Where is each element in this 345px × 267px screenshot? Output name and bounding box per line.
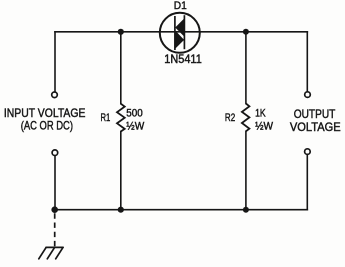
diode D1 upper arrow (points left): [175, 18, 184, 36]
ground (chassis): [39, 247, 63, 258]
svg-text:VOLTAGE: VOLTAGE: [290, 120, 341, 134]
wire top rail: [55, 31, 307, 33]
diode D1 right bar: [183, 15, 185, 49]
wire R1 bottom lead: [120, 132, 122, 210]
svg-text:1K: 1K: [255, 108, 266, 120]
svg-text:R2: R2: [225, 112, 235, 124]
wire left column upper: [54, 32, 56, 92]
svg-text:½W: ½W: [126, 120, 144, 132]
resistor R2: [242, 104, 250, 132]
node junction bottom R2: [243, 207, 249, 213]
wire left column lower: [54, 156, 56, 210]
output terminal bottom: [305, 149, 311, 155]
diode D1 left bar: [174, 16, 176, 50]
wire bottom rail: [55, 209, 307, 211]
wire right column lower: [306, 155, 308, 210]
node junction bottom left: [51, 206, 58, 213]
svg-text:1N5411: 1N5411: [164, 52, 202, 66]
diode D1 circle: [160, 13, 200, 53]
wire dashed ground lead: [54, 213, 56, 247]
wire R2 top lead: [245, 32, 247, 104]
svg-text:OUTPUT: OUTPUT: [294, 107, 336, 121]
svg-text:D1: D1: [174, 0, 187, 12]
node junction top R1: [118, 29, 124, 35]
wire R2 bottom lead: [245, 131, 247, 209]
input terminal top: [52, 92, 58, 98]
svg-text:R1: R1: [101, 112, 111, 124]
svg-text:½W: ½W: [255, 120, 273, 132]
svg-text:(AC OR DC): (AC OR DC): [21, 119, 73, 133]
output terminal top: [305, 92, 311, 98]
diode D1 lower arrow (points right): [175, 30, 184, 49]
wire right column upper: [306, 32, 308, 92]
svg-text:500: 500: [126, 108, 143, 120]
node junction bottom R1: [118, 207, 124, 213]
resistor R1: [117, 104, 125, 132]
wire R1 top lead: [120, 32, 122, 104]
node junction top R2: [243, 29, 249, 35]
input terminal bottom: [52, 150, 58, 156]
